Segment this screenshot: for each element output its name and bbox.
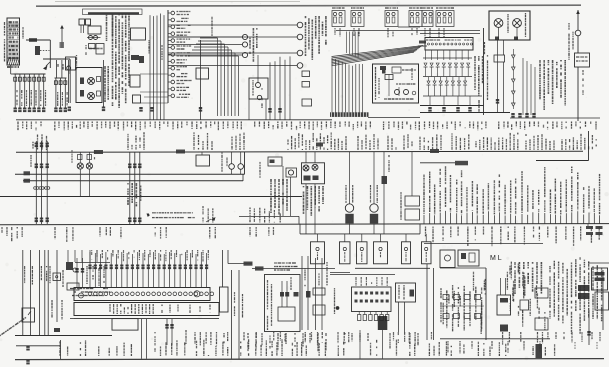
svg-text:M L: M L <box>490 255 502 262</box>
